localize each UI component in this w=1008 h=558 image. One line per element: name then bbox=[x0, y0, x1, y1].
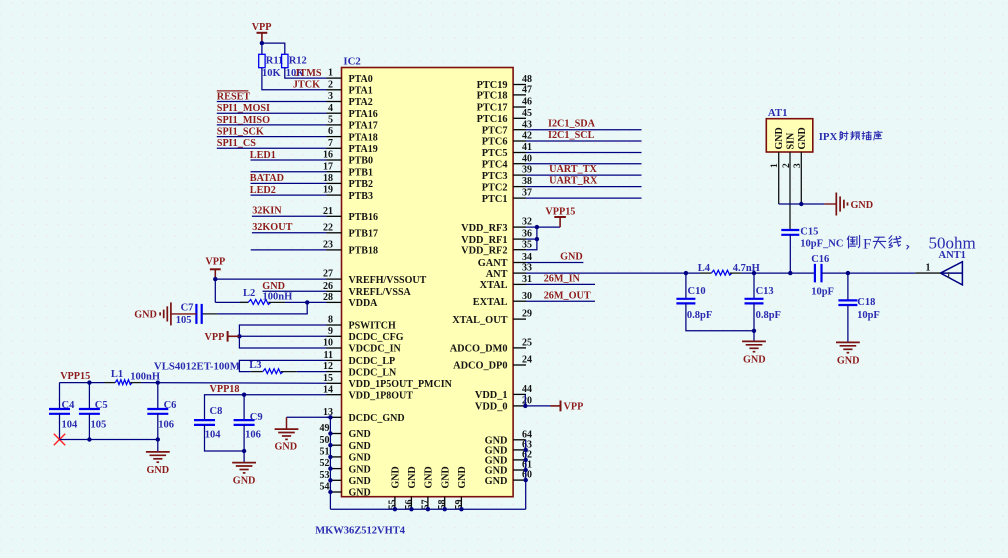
svg-text:DCDC_LN: DCDC_LN bbox=[349, 367, 398, 378]
svg-text:35: 35 bbox=[522, 239, 532, 250]
wire 26M_OUT to pin 30 EXTAL bbox=[526, 300, 595, 302]
node C15 tap bbox=[788, 271, 792, 275]
wire pin 37 bbox=[526, 197, 642, 199]
svg-text:54: 54 bbox=[320, 482, 330, 493]
node GND pin 50 bbox=[328, 443, 332, 447]
svg-text:48: 48 bbox=[522, 74, 532, 85]
wire pin 14 VDD_1P8OUT to C8 bbox=[205, 395, 327, 420]
svg-text:L1: L1 bbox=[111, 369, 123, 380]
svg-text:PTA1: PTA1 bbox=[349, 86, 373, 97]
wire pin 40 bbox=[526, 163, 642, 165]
power ground symbol (C7) bbox=[170, 302, 172, 325]
node GND bus pin 57 bbox=[426, 507, 430, 511]
svg-text:GANT: GANT bbox=[478, 258, 508, 269]
wire junction to ground bbox=[753, 331, 755, 342]
node GND pin 51 bbox=[328, 455, 332, 459]
svg-text:47: 47 bbox=[522, 85, 532, 96]
svg-text:C8: C8 bbox=[210, 406, 223, 417]
svg-text:32KOUT: 32KOUT bbox=[252, 222, 292, 233]
svg-text:GND: GND bbox=[349, 429, 371, 440]
IC2 pin 45 PTC16 stub bbox=[513, 117, 526, 119]
connector AT1 body bbox=[766, 119, 813, 152]
IC2 pin 13 DCDC_GND stub bbox=[327, 416, 342, 418]
svg-text:R11: R11 bbox=[266, 56, 284, 67]
chip IC2 body MKW36Z512VHT4 bbox=[342, 68, 514, 497]
svg-text:VLS4012ET-100M: VLS4012ET-100M bbox=[154, 360, 240, 372]
svg-text:GND: GND bbox=[349, 453, 371, 464]
svg-text:PTC7: PTC7 bbox=[482, 125, 508, 136]
IC2 pin 36 VDD_RF1 stub bbox=[513, 238, 526, 240]
svg-text:104: 104 bbox=[205, 430, 222, 441]
wire VDDA junction down to C7 branch bbox=[217, 302, 307, 314]
svg-text:6: 6 bbox=[328, 126, 333, 137]
wire C18 bottom to ground bbox=[847, 305, 849, 342]
inductor L2 with leads on VDDA line bbox=[215, 301, 248, 303]
svg-text:19: 19 bbox=[323, 185, 333, 196]
svg-text:GND: GND bbox=[349, 441, 371, 452]
svg-text:GND: GND bbox=[146, 465, 169, 476]
wire pin 23 bbox=[251, 249, 327, 251]
svg-text:VPP: VPP bbox=[252, 22, 272, 33]
wire C9 branch bbox=[243, 395, 245, 420]
svg-text:26M_IN: 26M_IN bbox=[544, 274, 581, 285]
svg-text:9: 9 bbox=[328, 326, 333, 337]
inductor L3 with leads bbox=[251, 371, 263, 373]
IC2 pin 16 PTB0 stub bbox=[327, 159, 342, 161]
svg-text:PSWITCH: PSWITCH bbox=[349, 321, 396, 332]
IC2 pin 42 PTC6 stub bbox=[513, 140, 526, 142]
IC2 pin 54 GND stub bbox=[330, 491, 341, 493]
svg-text:10K: 10K bbox=[262, 68, 282, 79]
node GND pin 63 bbox=[524, 448, 528, 452]
wire UART_RX to pin 38 bbox=[526, 186, 642, 188]
IC2 pin 56 GND stub (bottom) bbox=[410, 497, 412, 510]
capacitor C13 plates bbox=[745, 298, 764, 300]
svg-text:27: 27 bbox=[323, 269, 333, 280]
wire VPP junction to R12 top bbox=[262, 43, 285, 54]
svg-text:IPX: IPX bbox=[819, 131, 838, 143]
svg-text:C5: C5 bbox=[95, 400, 108, 411]
svg-text:2: 2 bbox=[328, 79, 333, 90]
wire bottom rail C4-C5-C6 bbox=[60, 439, 158, 441]
svg-text:SPI1_CS: SPI1_CS bbox=[217, 138, 256, 149]
svg-text:VDDA: VDDA bbox=[349, 298, 379, 309]
svg-text:12: 12 bbox=[323, 361, 333, 372]
svg-text:59: 59 bbox=[454, 500, 465, 510]
IC2 pin 41 PTC5 stub bbox=[513, 152, 526, 154]
svg-text:VDCDC_IN: VDCDC_IN bbox=[349, 344, 402, 355]
svg-text:C18: C18 bbox=[857, 297, 875, 308]
node C8/C9 ground junction bbox=[242, 449, 246, 453]
wire SPI1_SCK to pin 6 bbox=[217, 136, 327, 138]
IC2 pin 52 GND stub bbox=[330, 468, 341, 470]
wire junction to ground bbox=[243, 451, 245, 463]
wire SPI1_CS to pin 7 bbox=[217, 147, 327, 149]
wire C13 bottom to ground node bbox=[753, 303, 755, 330]
svg-text:GND: GND bbox=[274, 442, 297, 453]
svg-text:24: 24 bbox=[522, 355, 532, 366]
capacitor C18 branch bbox=[847, 273, 849, 300]
node GND bus pin 59 bbox=[459, 507, 463, 511]
node rail-C6 GND bbox=[156, 437, 160, 441]
svg-text:C7: C7 bbox=[181, 302, 194, 313]
svg-text:VREFH/VSSOUT: VREFH/VSSOUT bbox=[349, 275, 427, 286]
svg-text:C16: C16 bbox=[811, 254, 829, 265]
wire R12 bottom to pin 1 JTMS bbox=[285, 68, 327, 78]
wire C5 bottom to rail bbox=[88, 414, 90, 440]
svg-text:10pF: 10pF bbox=[811, 287, 834, 298]
svg-text:ADCO_DP0: ADCO_DP0 bbox=[453, 361, 507, 372]
IC2 pin 33 ANT stub bbox=[513, 272, 526, 274]
wire pin 44 VDD_1 to pin 20 VDD_0 bbox=[524, 394, 526, 406]
wire I2C1_SCL to pin 42 bbox=[526, 140, 642, 142]
IC2 pin 7 PTA19 stub bbox=[327, 147, 342, 149]
wire GND to pin 34 GANT bbox=[526, 262, 583, 264]
svg-text:106: 106 bbox=[158, 419, 174, 430]
node VDD_RF1 junction bbox=[535, 237, 539, 241]
IC2 pin 28 VDDA stub bbox=[327, 301, 342, 303]
IC2 pin 39 PTC3 stub bbox=[513, 174, 526, 176]
svg-text:GND: GND bbox=[774, 127, 785, 149]
node C5 tap bbox=[87, 380, 91, 384]
node C6 tap bbox=[156, 380, 160, 384]
inductor L4 with leads bbox=[700, 272, 711, 274]
node C9 tap bbox=[242, 393, 246, 397]
wire L3 to pin 12 DCDC_LN bbox=[297, 371, 327, 373]
inductor L1 with leads bbox=[105, 382, 116, 384]
svg-text:104: 104 bbox=[62, 419, 79, 430]
svg-text:43: 43 bbox=[522, 119, 532, 130]
svg-text:34: 34 bbox=[522, 252, 532, 263]
IC2 pin 57 GND stub (bottom) bbox=[427, 497, 429, 510]
svg-text:PTC16: PTC16 bbox=[477, 114, 508, 125]
IC2 pin 53 GND stub bbox=[330, 479, 341, 481]
svg-text:VPP: VPP bbox=[564, 402, 584, 413]
wire VPP to pin 27 VREFH/VSSOUT bbox=[215, 278, 326, 280]
IC2 pin 10 VDCDC_IN stub bbox=[327, 347, 342, 349]
wire pin 13 DCDC_GND to ground bbox=[287, 416, 331, 418]
svg-text:EXTAL: EXTAL bbox=[473, 297, 508, 308]
svg-text:25: 25 bbox=[522, 338, 532, 349]
svg-text:VDD_1P5OUT_PMCIN: VDD_1P5OUT_PMCIN bbox=[349, 379, 453, 390]
svg-text:PTB1: PTB1 bbox=[349, 167, 373, 178]
IC2 pin 1 PTA0 stub bbox=[327, 77, 342, 79]
IC2 pin 64 GND stub bbox=[513, 439, 526, 441]
svg-text:2: 2 bbox=[782, 163, 792, 168]
svg-text:44: 44 bbox=[522, 384, 532, 395]
svg-text:4: 4 bbox=[328, 103, 333, 114]
svg-text:PTA2: PTA2 bbox=[349, 97, 373, 108]
capacitor C6 plates bbox=[147, 408, 168, 410]
IC2 pin 46 PTC17 stub bbox=[513, 106, 526, 108]
svg-text:PTB16: PTB16 bbox=[349, 212, 378, 223]
wire R11 bottom to pin 2 JTCK bbox=[262, 68, 327, 90]
wire AT1 ground to bars bbox=[801, 203, 824, 205]
svg-text:C10: C10 bbox=[688, 286, 706, 297]
capacitor C10 plates bbox=[676, 298, 695, 300]
wire LED1 to pin 16 bbox=[251, 159, 327, 161]
svg-text:5: 5 bbox=[328, 115, 333, 126]
svg-text:PTC4: PTC4 bbox=[482, 159, 508, 170]
svg-text:GND: GND bbox=[134, 310, 157, 321]
svg-text:C9: C9 bbox=[250, 412, 263, 423]
svg-text:49: 49 bbox=[320, 423, 330, 434]
wire pin 33 ANT to antenna network bbox=[526, 272, 700, 274]
svg-text:DCDC_CFG: DCDC_CFG bbox=[349, 332, 404, 343]
svg-text:0.8pF: 0.8pF bbox=[687, 310, 712, 321]
svg-text:VDD_0: VDD_0 bbox=[475, 402, 508, 413]
svg-text:LED2: LED2 bbox=[250, 185, 276, 196]
svg-text:42: 42 bbox=[522, 131, 532, 142]
IC2 pin 37 PTC1 stub bbox=[513, 197, 526, 199]
svg-text:PTB3: PTB3 bbox=[349, 191, 373, 202]
node GND pin 52 bbox=[328, 466, 332, 470]
svg-text:PTC5: PTC5 bbox=[482, 148, 508, 159]
IC2 pin 50 GND stub bbox=[330, 444, 341, 446]
IC2 pin 61 GND stub bbox=[513, 469, 526, 471]
IC2 pin 43 PTC7 stub bbox=[513, 129, 526, 131]
wire C9 bottom to ground node bbox=[243, 425, 245, 451]
svg-text:8: 8 bbox=[328, 315, 333, 326]
resistor R11 body bbox=[259, 54, 265, 67]
wire pin 9 DCDC_CFG bbox=[239, 335, 326, 337]
svg-text:37: 37 bbox=[522, 188, 532, 199]
antenna ANT1 pin 1 lead bbox=[915, 272, 940, 274]
IC2 pin 3 PTA2 stub bbox=[327, 101, 342, 103]
svg-text:SPI1_MISO: SPI1_MISO bbox=[217, 115, 270, 126]
wire AT1 pin1 to pin3 ground tie bbox=[779, 203, 802, 205]
label inverted-F antenna 50ohm (dao F tian xian, 50ohm) bbox=[847, 235, 859, 248]
svg-text:BATAD: BATAD bbox=[250, 173, 284, 184]
svg-text:58: 58 bbox=[437, 500, 448, 510]
IC2 pin 17 PTB1 stub bbox=[327, 171, 342, 173]
svg-text:VPP: VPP bbox=[204, 332, 224, 343]
wire SPI1_MOSI to pin 4 bbox=[217, 112, 327, 114]
node pin13-GND chain bbox=[328, 415, 332, 419]
svg-text:L4: L4 bbox=[698, 263, 711, 274]
svg-text:VPP15: VPP15 bbox=[60, 371, 90, 382]
no-connect X mark (C4) bbox=[54, 434, 65, 445]
svg-text:I2C1_SCL: I2C1_SCL bbox=[548, 130, 595, 141]
IC2 pin 55 GND stub (bottom) bbox=[394, 497, 396, 510]
svg-text:PTC1: PTC1 bbox=[482, 194, 508, 205]
IC2 pin 23 PTB18 stub bbox=[327, 249, 342, 251]
wire UART_TX to pin 39 bbox=[526, 174, 642, 176]
svg-text:PTA19: PTA19 bbox=[349, 144, 378, 155]
IC2 pin 38 PTC2 stub bbox=[513, 186, 526, 188]
svg-text:RESET: RESET bbox=[217, 91, 251, 102]
node AT1 ground junction bbox=[799, 202, 803, 206]
svg-text:0.8pF: 0.8pF bbox=[756, 310, 781, 321]
svg-text:UART_TX: UART_TX bbox=[549, 164, 597, 175]
capacitor C13 branch bbox=[753, 273, 755, 299]
IC2 pin 40 PTC4 stub bbox=[513, 163, 526, 165]
node VPP tap junction (pin 9) bbox=[237, 334, 241, 338]
svg-text:16: 16 bbox=[323, 150, 333, 161]
svg-text:PTC17: PTC17 bbox=[477, 103, 508, 114]
capacitor C5 plates bbox=[79, 408, 100, 410]
IC2 pin 25 ADCO_DM0 stub bbox=[513, 347, 526, 349]
svg-text:GND: GND bbox=[457, 466, 468, 488]
wire L1 to pin 15 VDD_1P5OUT_PMCIN bbox=[141, 382, 327, 385]
IC2 pin 22 PTB17 stub bbox=[327, 232, 342, 234]
node C18 tap bbox=[846, 271, 850, 275]
capacitor C6 branch wire bbox=[157, 383, 159, 409]
node VDD_RF3 junction bbox=[535, 225, 539, 229]
svg-text:56: 56 bbox=[404, 500, 415, 510]
IC2 pin 26 VREFL/VSSA stub bbox=[327, 290, 342, 292]
svg-text:17: 17 bbox=[323, 161, 333, 172]
node C10/C13 ground junction bbox=[752, 329, 756, 333]
svg-text:57: 57 bbox=[420, 500, 431, 510]
IC2 pin 48 PTC19 stub bbox=[513, 84, 526, 86]
svg-text:VDD_1P8OUT: VDD_1P8OUT bbox=[349, 390, 414, 401]
svg-text:JTMS: JTMS bbox=[294, 68, 322, 79]
wire 32KIN to pin 21 bbox=[252, 215, 327, 217]
svg-text:C6: C6 bbox=[164, 400, 177, 411]
wire LED2 to pin 19 bbox=[251, 194, 327, 196]
capacitor C9 plates bbox=[234, 419, 255, 421]
node C13 tap bbox=[752, 271, 756, 275]
svg-text:GND: GND bbox=[743, 354, 766, 365]
svg-text:32: 32 bbox=[522, 217, 532, 228]
svg-text:PTA16: PTA16 bbox=[349, 109, 378, 120]
wire I2C1_SDA to pin 43 bbox=[526, 129, 642, 131]
svg-text:23: 23 bbox=[323, 240, 333, 251]
capacitor C15 plates bbox=[781, 229, 799, 231]
svg-text:I2C1_SDA: I2C1_SDA bbox=[548, 119, 596, 130]
svg-text:105: 105 bbox=[91, 419, 107, 430]
svg-text:C15: C15 bbox=[800, 227, 818, 238]
ground symbol (C6) bbox=[146, 451, 170, 453]
IC2 pin 4 PTA16 stub bbox=[327, 112, 342, 114]
svg-text:22: 22 bbox=[323, 222, 333, 233]
IC2 pin 12 DCDC_LN stub bbox=[327, 371, 342, 373]
ground symbol (DCDC_GND) bbox=[275, 428, 299, 430]
svg-text:50: 50 bbox=[320, 435, 330, 446]
svg-text:VPP: VPP bbox=[205, 256, 225, 267]
svg-text:GND: GND bbox=[797, 127, 808, 149]
svg-text:VDD_1: VDD_1 bbox=[475, 390, 508, 401]
svg-text:3: 3 bbox=[793, 163, 803, 168]
power symbol VPP (pin 9, horizontal) bbox=[228, 335, 240, 337]
node VPP-VREFH junction bbox=[213, 277, 217, 281]
wire pin 36 to bracket bbox=[526, 238, 537, 240]
node VDDA junction bbox=[305, 300, 309, 304]
IC2 pin 19 PTB3 stub bbox=[327, 194, 342, 196]
svg-text:R12: R12 bbox=[289, 56, 307, 67]
IC2 pin 60 GND stub bbox=[513, 479, 526, 481]
node VDD junction (pin 20) bbox=[523, 404, 527, 408]
wire right GND chain (pins 64-60) bbox=[525, 440, 527, 509]
svg-text:53: 53 bbox=[320, 470, 330, 481]
svg-text:VDD_RF3: VDD_RF3 bbox=[461, 223, 507, 234]
svg-text:32KIN: 32KIN bbox=[252, 205, 282, 216]
svg-text:31: 31 bbox=[522, 274, 532, 285]
wire C15 bottom to antenna line bbox=[789, 235, 791, 273]
capacitor C18 plates bbox=[838, 299, 857, 301]
svg-text:41: 41 bbox=[522, 142, 532, 153]
IC2 pin 49 GND stub bbox=[330, 433, 341, 435]
ground symbol (C13) bbox=[742, 340, 766, 342]
capacitor C7 plates bbox=[201, 313, 217, 315]
svg-text:3: 3 bbox=[328, 91, 333, 102]
wire pin 11 DCDC_LP to L3 bbox=[239, 360, 326, 371]
node GND pin 62 bbox=[524, 458, 528, 462]
svg-text:LED1: LED1 bbox=[250, 150, 276, 161]
svg-text:GND: GND bbox=[407, 466, 418, 488]
svg-text:50ohm: 50ohm bbox=[929, 234, 976, 253]
node GND bus pin 55 bbox=[393, 507, 397, 511]
ground symbol (C9) bbox=[232, 462, 256, 464]
svg-text:SPI1_SCK: SPI1_SCK bbox=[217, 127, 264, 138]
svg-text:1: 1 bbox=[328, 68, 333, 79]
IC2 pin 5 PTA17 stub bbox=[327, 124, 342, 126]
connector AT1 pin 3 stub bbox=[800, 152, 802, 204]
svg-text:GND: GND bbox=[349, 488, 371, 499]
wire pins 8-10 tie bracket bbox=[239, 325, 326, 348]
svg-text:36: 36 bbox=[522, 229, 532, 240]
IC2 pin 6 PTA18 stub bbox=[327, 136, 342, 138]
svg-text:MKW36Z512VHT4: MKW36Z512VHT4 bbox=[315, 525, 406, 536]
svg-text:GND: GND bbox=[851, 200, 874, 211]
svg-text:GND: GND bbox=[233, 476, 256, 487]
svg-text:46: 46 bbox=[522, 97, 532, 108]
svg-text:1: 1 bbox=[946, 270, 950, 280]
svg-text:L3: L3 bbox=[249, 360, 261, 371]
wire C6 node to ground bbox=[157, 440, 159, 452]
capacitor C4 branch wire bbox=[59, 383, 61, 409]
wire C16 to antenna bbox=[822, 272, 916, 274]
connector AT1 pin 1 stub bbox=[778, 152, 780, 204]
node GND pin 61 bbox=[524, 468, 528, 472]
IC2 pin 14 VDD_1P8OUT stub bbox=[327, 394, 342, 396]
IC2 pin 15 VDD_1P5OUT_PMCIN stub bbox=[327, 382, 342, 384]
svg-text:51: 51 bbox=[320, 447, 330, 458]
svg-text:45: 45 bbox=[522, 108, 532, 119]
svg-text:105: 105 bbox=[176, 315, 192, 326]
svg-text:15: 15 bbox=[323, 373, 333, 384]
svg-text:11: 11 bbox=[324, 350, 333, 361]
wire RESET to pin 3 bbox=[217, 101, 327, 103]
svg-text:18: 18 bbox=[323, 173, 333, 184]
svg-text:GND: GND bbox=[349, 464, 371, 475]
ground symbol (C18) bbox=[836, 341, 860, 343]
svg-text:C4: C4 bbox=[62, 400, 76, 411]
svg-text:GND: GND bbox=[424, 466, 435, 488]
IC2 pin 31 XTAL stub bbox=[513, 283, 526, 285]
svg-text:7: 7 bbox=[328, 138, 333, 149]
wire C6 bottom to rail bbox=[157, 414, 159, 440]
svg-text:100nH: 100nH bbox=[263, 291, 293, 302]
node GND pin 60 bbox=[524, 478, 528, 482]
node GND pin 49 bbox=[328, 431, 332, 435]
svg-text:GND: GND bbox=[560, 252, 583, 263]
wire VDD junction to VPP bbox=[525, 405, 550, 407]
power ground symbol (AT1) bbox=[835, 193, 837, 216]
IC2 pin 32 VDD_RF3 stub bbox=[513, 226, 526, 228]
svg-text:IC2: IC2 bbox=[343, 55, 360, 67]
IC2 pin 21 PTB16 stub bbox=[327, 215, 342, 217]
wire pin 17 bbox=[251, 171, 327, 173]
wire 32KOUT to pin 22 bbox=[252, 232, 327, 234]
svg-text:DCDC_GND: DCDC_GND bbox=[349, 413, 405, 424]
svg-text:SIN: SIN bbox=[786, 132, 797, 149]
svg-text:VPP18: VPP18 bbox=[210, 384, 240, 395]
capacitor C8 plates bbox=[194, 419, 215, 421]
svg-text:38: 38 bbox=[522, 176, 532, 187]
IC2 pin 59 GND stub (bottom) bbox=[460, 497, 462, 510]
